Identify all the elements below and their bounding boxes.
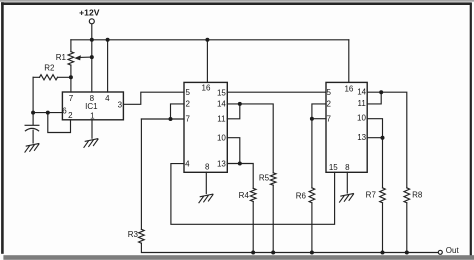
svg-text:8: 8 bbox=[90, 94, 95, 103]
svg-text:10: 10 bbox=[357, 114, 366, 123]
svg-text:15: 15 bbox=[217, 88, 226, 97]
svg-text:4: 4 bbox=[105, 94, 110, 103]
svg-text:R5: R5 bbox=[259, 174, 270, 183]
svg-text:R2: R2 bbox=[44, 63, 55, 72]
svg-text:+12V: +12V bbox=[79, 8, 100, 18]
svg-text:13: 13 bbox=[217, 160, 226, 169]
svg-text:6: 6 bbox=[62, 107, 67, 116]
svg-text:16: 16 bbox=[344, 85, 353, 94]
svg-text:14: 14 bbox=[217, 100, 226, 109]
svg-text:5: 5 bbox=[185, 88, 190, 97]
svg-text:11: 11 bbox=[358, 99, 367, 108]
svg-text:10: 10 bbox=[217, 134, 226, 143]
svg-text:2: 2 bbox=[185, 100, 190, 109]
svg-text:Out: Out bbox=[446, 246, 460, 255]
svg-text:8: 8 bbox=[345, 163, 350, 172]
svg-text:1: 1 bbox=[90, 111, 95, 120]
svg-text:R8: R8 bbox=[412, 191, 423, 200]
svg-text:7: 7 bbox=[69, 94, 74, 103]
svg-text:IC1: IC1 bbox=[85, 102, 98, 111]
svg-text:R4: R4 bbox=[239, 191, 250, 200]
svg-text:7: 7 bbox=[185, 115, 190, 124]
svg-text:13: 13 bbox=[357, 133, 366, 142]
svg-text:2: 2 bbox=[326, 100, 331, 109]
svg-text:R1: R1 bbox=[56, 53, 67, 62]
svg-text:R6: R6 bbox=[296, 191, 307, 200]
svg-text:4: 4 bbox=[185, 159, 190, 168]
svg-text:8: 8 bbox=[205, 163, 210, 172]
svg-text:15: 15 bbox=[329, 163, 338, 172]
svg-text:11: 11 bbox=[217, 114, 226, 123]
svg-text:16: 16 bbox=[202, 83, 211, 92]
svg-text:R3: R3 bbox=[128, 230, 139, 239]
svg-text:3: 3 bbox=[118, 101, 123, 110]
svg-text:5: 5 bbox=[326, 88, 331, 97]
svg-text:R7: R7 bbox=[366, 191, 377, 200]
svg-text:2: 2 bbox=[68, 111, 73, 120]
svg-text:14: 14 bbox=[357, 87, 366, 96]
svg-text:7: 7 bbox=[326, 114, 331, 123]
